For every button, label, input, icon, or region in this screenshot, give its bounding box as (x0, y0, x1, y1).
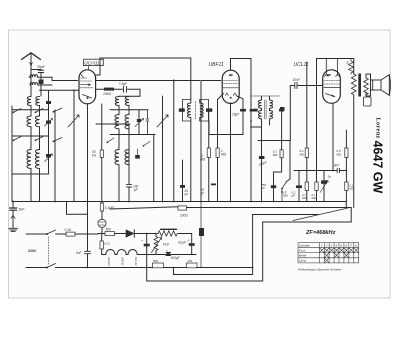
svg-text:+: + (141, 239, 143, 243)
svg-text:+: + (188, 239, 190, 243)
svg-text:UCH11: UCH11 (84, 61, 100, 67)
svg-text:3: 3 (331, 244, 333, 248)
svg-text:10kΩ: 10kΩ (103, 92, 111, 96)
svg-text:MΩ: MΩ (283, 194, 288, 198)
svg-text:100Ω: 100Ω (180, 214, 188, 218)
svg-text:MΩ: MΩ (200, 158, 206, 162)
svg-text:15pF: 15pF (232, 113, 240, 117)
svg-text:5nF: 5nF (19, 207, 26, 211)
svg-text:10nF: 10nF (293, 78, 301, 82)
svg-text:kΩ: kΩ (92, 154, 97, 158)
svg-text:Lorenz: Lorenz (375, 118, 382, 139)
svg-text:100µF: 100µF (171, 256, 181, 260)
svg-text:Wellenlängen-Sprache-Schalter: Wellenlängen-Sprache-Schalter (298, 268, 343, 272)
svg-text:U12: U12 (104, 242, 110, 246)
svg-text:µF: µF (292, 194, 296, 198)
svg-text:500: 500 (106, 228, 112, 232)
svg-text:ZF=468kHz: ZF=468kHz (305, 230, 336, 236)
svg-text:UCH11: UCH11 (107, 257, 111, 266)
svg-text:MΩ: MΩ (300, 153, 305, 157)
svg-text:2: 2 (325, 244, 328, 248)
svg-text:8: 8 (355, 244, 357, 248)
svg-text:MΩ: MΩ (273, 153, 278, 157)
svg-text:6: 6 (345, 244, 347, 248)
svg-text:Kurz: Kurz (299, 249, 306, 253)
svg-text:251: 251 (187, 259, 193, 263)
svg-text:7: 7 (350, 244, 352, 248)
svg-text:Mittel: Mittel (299, 254, 307, 258)
svg-text:UBF11: UBF11 (121, 257, 125, 266)
svg-text:Lang: Lang (299, 259, 306, 263)
svg-text:MΩ: MΩ (337, 153, 342, 157)
svg-text:32µF: 32µF (178, 241, 187, 245)
svg-text:0,1A: 0,1A (65, 228, 72, 232)
svg-text:4: 4 (335, 244, 337, 248)
svg-text:1: 1 (321, 244, 323, 248)
svg-text:FeU: FeU (163, 243, 170, 247)
svg-text:500: 500 (153, 259, 158, 263)
svg-text:pF: pF (261, 186, 266, 190)
svg-text:Schalter: Schalter (299, 244, 311, 248)
svg-text:3µ: 3µ (328, 175, 332, 179)
svg-text:10nF: 10nF (332, 164, 340, 168)
svg-text:7,5pF: 7,5pF (119, 82, 129, 86)
svg-text:MΩ: MΩ (221, 153, 227, 157)
svg-text:5: 5 (347, 61, 349, 65)
svg-text:25pF: 25pF (36, 65, 46, 69)
svg-text:UCL11: UCL11 (134, 257, 138, 266)
svg-text:UBF11: UBF11 (209, 62, 224, 68)
svg-text:220V: 220V (27, 249, 37, 253)
svg-text:0,1MΩ: 0,1MΩ (105, 206, 115, 210)
svg-text:4647 GW: 4647 GW (371, 141, 385, 194)
svg-text:+: + (166, 249, 168, 253)
svg-text:5: 5 (340, 244, 342, 248)
